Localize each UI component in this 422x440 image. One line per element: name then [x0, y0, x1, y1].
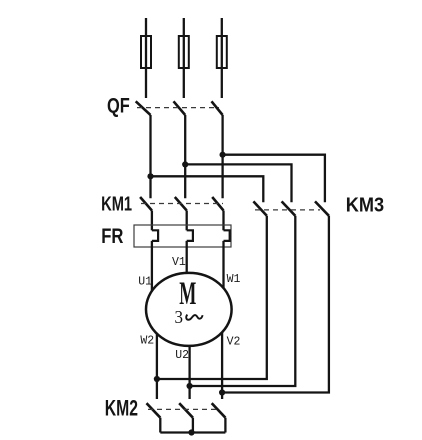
wire QF to KM1 pole3	[221, 115, 223, 198]
contactor KM2 pole 1 blade	[147, 403, 161, 418]
wire KM1 to FR pole2	[186, 211, 188, 231]
svg-text:KM1: KM1	[101, 193, 132, 215]
contactor KM1 pole 3 blade	[212, 197, 223, 211]
contactor KM3 pole 3 blade	[315, 201, 329, 215]
breaker QF pole 1 blade	[136, 101, 151, 115]
svg-text:V1: V1	[172, 256, 186, 269]
thermal relay FR box	[134, 225, 231, 247]
FR heater element 3	[224, 230, 230, 241]
wire motor W2 down	[156, 309, 158, 399]
wire KM3 pole2 to U2 node	[190, 216, 296, 386]
wire L1 incoming	[145, 18, 147, 98]
svg-text:V2: V2	[227, 335, 241, 348]
KM2 linkage dashed	[148, 408, 218, 410]
QF linkage dashed	[137, 107, 219, 109]
svg-text:W1: W1	[227, 273, 241, 286]
fuse FU3	[217, 36, 227, 68]
contactor KM1 pole 2 blade	[175, 197, 187, 211]
wire FR to motor V1	[186, 241, 188, 309]
FR heater element 1	[152, 230, 158, 241]
svg-text:W2: W2	[140, 335, 154, 348]
wire motor V2 down	[221, 309, 223, 399]
svg-text:KM2: KM2	[105, 395, 138, 420]
wire motor U2 down	[188, 309, 190, 399]
wire KM3 pole1 to W2 node	[157, 216, 267, 379]
node W2	[154, 376, 160, 382]
wire branch to KM3 pole2	[185, 164, 291, 202]
node L2 branch	[182, 161, 188, 167]
svg-text:QF: QF	[107, 95, 130, 118]
node star point	[188, 429, 194, 435]
wire L2 incoming	[183, 18, 185, 98]
wire KM1 to FR pole1	[151, 211, 153, 231]
wire KM2 pole1 to star bus	[159, 418, 161, 433]
svg-text:FR: FR	[101, 225, 123, 248]
wire branch to KM3 pole3	[223, 155, 325, 203]
node L1 branch	[147, 173, 153, 179]
node L3 branch	[220, 152, 226, 158]
fuse FU2	[179, 36, 189, 68]
contactor KM2 pole 2 blade	[179, 403, 193, 418]
wire branch to KM3 pole1	[151, 176, 264, 202]
wire QF to KM1 pole2	[184, 115, 186, 198]
contactor KM3 pole 1 blade	[253, 201, 266, 215]
svg-text:U2: U2	[175, 349, 189, 362]
svg-text:3: 3	[175, 307, 184, 327]
wire FR to motor W1	[222, 241, 224, 309]
node U2	[187, 383, 193, 389]
node V2	[219, 389, 225, 395]
svg-text:U1: U1	[138, 275, 152, 288]
motor M circle	[146, 273, 232, 346]
wire KM1 to FR pole3	[222, 211, 224, 231]
FR heater element 2	[187, 230, 193, 241]
wire L3 incoming	[221, 18, 223, 98]
fuse FU1	[141, 36, 151, 68]
contactor KM1 pole 1 blade	[140, 197, 152, 211]
breaker QF pole 3 blade	[212, 101, 223, 115]
motor sine squiggle	[186, 315, 202, 320]
wire KM2 pole3 to star bus	[224, 418, 226, 433]
KM1 linkage dashed	[141, 203, 223, 205]
KM3 linkage dashed	[255, 209, 320, 211]
wire FR to motor U1	[151, 241, 153, 309]
wire QF to KM1 pole1	[149, 115, 151, 198]
star point bus	[160, 431, 225, 433]
wire KM2 pole2 to star bus	[192, 418, 194, 433]
contactor KM3 pole 2 blade	[282, 201, 296, 215]
contactor KM2 pole 3 blade	[212, 403, 226, 418]
breaker QF pole 2 blade	[174, 101, 186, 115]
svg-text:KM3: KM3	[346, 193, 384, 216]
wire KM3 pole3 to V2 node	[222, 216, 329, 393]
